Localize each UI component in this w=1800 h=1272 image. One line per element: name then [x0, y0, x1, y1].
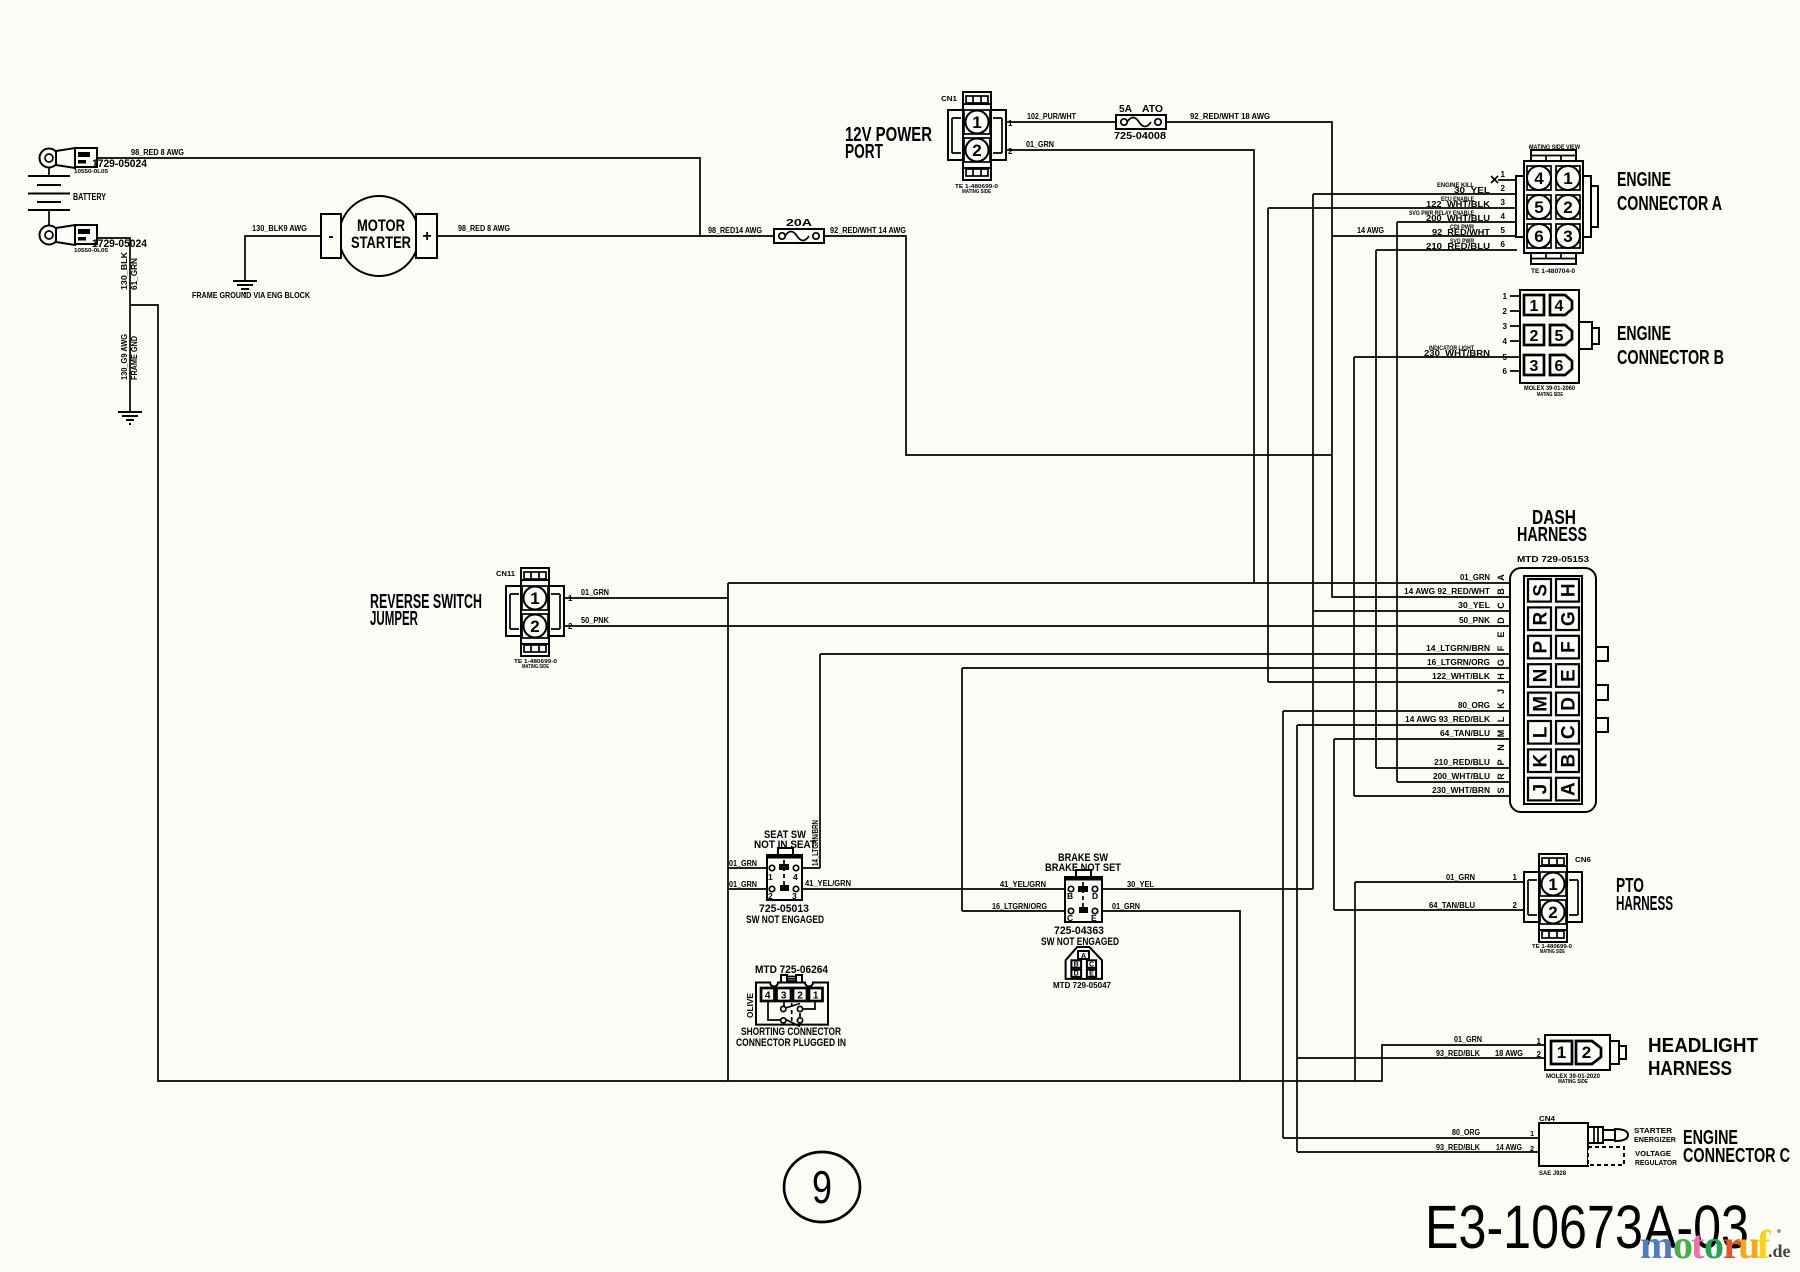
- svg-text:L: L: [1531, 726, 1552, 738]
- svg-text:PORT: PORT: [845, 141, 883, 163]
- svg-text:MTD 725-06264: MTD 725-06264: [755, 964, 829, 976]
- svg-text:3: 3: [1563, 227, 1572, 246]
- svg-text:E: E: [1496, 631, 1506, 637]
- svg-text:HARNESS: HARNESS: [1648, 1058, 1732, 1080]
- svg-text:CN6: CN6: [1575, 857, 1591, 864]
- svg-text:4: 4: [1503, 337, 1508, 346]
- svg-text:4: 4: [1501, 212, 1506, 221]
- svg-text:J: J: [1496, 689, 1506, 694]
- svg-text:41_YEL/GRN: 41_YEL/GRN: [805, 879, 851, 888]
- svg-text:C: C: [1067, 913, 1073, 923]
- svg-text:2: 2: [1530, 1146, 1534, 1153]
- svg-text:80_ORG: 80_ORG: [1452, 1128, 1480, 1137]
- svg-text:E: E: [1091, 913, 1097, 923]
- svg-text:2: 2: [1503, 307, 1508, 316]
- svg-text:D: D: [1092, 891, 1098, 901]
- svg-text:1: 1: [1501, 170, 1506, 179]
- svg-text:200_WHT/BLU: 200_WHT/BLU: [1426, 213, 1490, 223]
- svg-text:M: M: [1531, 696, 1552, 712]
- svg-text:18 AWG: 18 AWG: [1495, 1049, 1523, 1058]
- svg-text:MATING SIDE: MATING SIDE: [962, 189, 992, 195]
- svg-text:102_PUR/WHT: 102_PUR/WHT: [1027, 112, 1076, 121]
- svg-text:210_RED/BLU: 210_RED/BLU: [1434, 758, 1490, 767]
- svg-text:122_WHT/BLK: 122_WHT/BLK: [1426, 199, 1491, 209]
- svg-text:01_GRN: 01_GRN: [581, 588, 609, 597]
- svg-text:9: 9: [812, 1161, 832, 1213]
- svg-text:2: 2: [1582, 1043, 1591, 1062]
- svg-text:16_LTGRN/ORG: 16_LTGRN/ORG: [1427, 658, 1490, 667]
- svg-text:10550-0L05: 10550-0L05: [74, 248, 108, 254]
- svg-text:2: 2: [1501, 184, 1506, 193]
- svg-text:BATTERY: BATTERY: [73, 192, 106, 203]
- svg-text:ENERGIZER: ENERGIZER: [1634, 1137, 1676, 1144]
- svg-text:5: 5: [1555, 328, 1564, 345]
- svg-text:4: 4: [765, 990, 771, 1001]
- svg-text:98_RED14 AWG: 98_RED14 AWG: [708, 226, 762, 235]
- svg-text:+: +: [422, 228, 431, 245]
- svg-text:2: 2: [1563, 198, 1572, 217]
- svg-text:SAE J928: SAE J928: [1539, 1171, 1567, 1177]
- svg-text:4: 4: [793, 872, 798, 882]
- svg-text:SW NOT ENGAGED: SW NOT ENGAGED: [746, 914, 824, 926]
- svg-text:3: 3: [1530, 358, 1539, 375]
- svg-text:3: 3: [792, 891, 797, 901]
- svg-text:ENGINE: ENGINE: [1617, 323, 1671, 345]
- svg-text:R: R: [1531, 612, 1552, 626]
- svg-text:61_GRN: 61_GRN: [130, 258, 139, 290]
- svg-text:2: 2: [1513, 901, 1518, 910]
- svg-text:01_GRN: 01_GRN: [1112, 902, 1140, 911]
- svg-text:92_RED/WHT 14 AWG: 92_RED/WHT 14 AWG: [830, 226, 906, 235]
- svg-text:6: 6: [1503, 367, 1508, 376]
- svg-text:30_YEL: 30_YEL: [1127, 880, 1154, 889]
- svg-text:G: G: [1496, 659, 1506, 666]
- svg-text:4: 4: [1534, 169, 1544, 188]
- svg-text:MATING SIDE: MATING SIDE: [1540, 949, 1566, 955]
- svg-text:6: 6: [1555, 358, 1564, 375]
- svg-text:CN11: CN11: [496, 571, 515, 578]
- svg-text:.de: .de: [1768, 1241, 1791, 1261]
- svg-text:5A: 5A: [1119, 104, 1132, 115]
- svg-text:B: B: [1559, 754, 1580, 768]
- svg-text:1: 1: [1513, 873, 1518, 882]
- svg-text:41_YEL/GRN: 41_YEL/GRN: [1000, 880, 1046, 889]
- svg-text:MATING SIDE: MATING SIDE: [522, 664, 550, 670]
- svg-text:1: 1: [1530, 1131, 1534, 1138]
- svg-text:200_WHT/BLU: 200_WHT/BLU: [1433, 772, 1490, 781]
- svg-text:B: B: [1067, 891, 1073, 901]
- svg-text:G: G: [1559, 611, 1580, 626]
- svg-text:1: 1: [813, 990, 819, 1001]
- svg-text:130_G9 AWG: 130_G9 AWG: [120, 334, 129, 380]
- svg-text:FRAME GROUND VIA ENG BLOCK: FRAME GROUND VIA ENG BLOCK: [192, 290, 311, 300]
- svg-text:130_BLK: 130_BLK: [120, 252, 129, 290]
- svg-text:2: 2: [1530, 328, 1539, 345]
- svg-text:ATO: ATO: [1142, 104, 1163, 115]
- svg-text:5: 5: [1534, 198, 1543, 217]
- svg-text:2: 2: [797, 990, 803, 1001]
- svg-text:A: A: [1081, 953, 1086, 960]
- svg-text:01_GRN: 01_GRN: [1460, 573, 1490, 582]
- svg-text:1: 1: [1530, 298, 1539, 315]
- svg-text:K: K: [1531, 754, 1552, 768]
- svg-text:A: A: [1559, 782, 1580, 796]
- svg-text:t: t: [1691, 1222, 1705, 1267]
- svg-text:P: P: [1531, 640, 1552, 653]
- svg-text:ENGINE: ENGINE: [1617, 169, 1671, 191]
- svg-text:92_RED/WHT 18 AWG: 92_RED/WHT 18 AWG: [1190, 112, 1270, 121]
- svg-text:P: P: [1496, 759, 1506, 765]
- svg-text:J: J: [1531, 784, 1552, 795]
- svg-text:122_WHT/BLK: 122_WHT/BLK: [1432, 672, 1490, 681]
- svg-text:R: R: [1496, 773, 1506, 780]
- svg-text:16_LTGRN/ORG: 16_LTGRN/ORG: [992, 902, 1047, 911]
- svg-text:6: 6: [1501, 240, 1506, 249]
- svg-text:2: 2: [1537, 1050, 1542, 1059]
- svg-text:14_LTGRN/BRN: 14_LTGRN/BRN: [1426, 644, 1490, 653]
- svg-text:o: o: [1673, 1222, 1693, 1267]
- svg-text:C: C: [1559, 725, 1580, 739]
- svg-text:92_RED/WHT: 92_RED/WHT: [1432, 227, 1491, 237]
- svg-text:E: E: [1559, 669, 1580, 682]
- svg-text:HEADLIGHT: HEADLIGHT: [1648, 1035, 1758, 1057]
- svg-text:50_PNK: 50_PNK: [581, 616, 609, 625]
- svg-text:M: M: [1496, 730, 1506, 738]
- svg-text:D: D: [1496, 617, 1506, 624]
- svg-text:CONNECTOR PLUGGED IN: CONNECTOR PLUGGED IN: [736, 1037, 846, 1049]
- svg-text:130_BLK9 AWG: 130_BLK9 AWG: [252, 224, 307, 233]
- svg-text:01_GRN: 01_GRN: [729, 880, 757, 889]
- svg-text:MTD 729-05153: MTD 729-05153: [1517, 555, 1590, 564]
- svg-text:14_LTGRN/BRN: 14_LTGRN/BRN: [811, 820, 820, 866]
- svg-text:50_PNK: 50_PNK: [1459, 616, 1490, 625]
- svg-text:1: 1: [1563, 169, 1572, 188]
- svg-text:STARTER: STARTER: [351, 233, 411, 252]
- svg-text:E: E: [1089, 971, 1094, 978]
- svg-text:2: 2: [1008, 147, 1013, 156]
- svg-text:64_TAN/BLU: 64_TAN/BLU: [1440, 729, 1490, 738]
- svg-text:HARNESS: HARNESS: [1616, 893, 1673, 915]
- svg-text:30_YEL: 30_YEL: [1454, 185, 1490, 195]
- svg-text:CONNECTOR B: CONNECTOR B: [1617, 347, 1724, 369]
- svg-text:MATING SIDE VIEW: MATING SIDE VIEW: [1529, 145, 1580, 151]
- svg-text:6: 6: [1534, 227, 1543, 246]
- svg-text:B: B: [1074, 962, 1079, 969]
- svg-text:64_TAN/BLU: 64_TAN/BLU: [1429, 901, 1475, 910]
- svg-text:14 AWG: 14 AWG: [1496, 1143, 1522, 1152]
- svg-text:5: 5: [1501, 226, 1506, 235]
- svg-text:230_WHT/BRN: 230_WHT/BRN: [1424, 348, 1490, 358]
- svg-text:93_RED/BLK: 93_RED/BLK: [1436, 1143, 1480, 1152]
- svg-text:2: 2: [768, 891, 773, 901]
- svg-text:3: 3: [1503, 322, 1508, 331]
- svg-text:20A: 20A: [786, 218, 812, 229]
- svg-text:CONNECTOR A: CONNECTOR A: [1617, 193, 1722, 215]
- svg-text:VOLTAGE: VOLTAGE: [1635, 1151, 1671, 1158]
- svg-text:CN1: CN1: [941, 96, 957, 103]
- svg-text:C: C: [1089, 962, 1094, 969]
- svg-text:14 AWG: 14 AWG: [1357, 226, 1384, 235]
- svg-text:MTD 729-05047: MTD 729-05047: [1053, 981, 1112, 990]
- svg-text:D: D: [1074, 971, 1079, 978]
- svg-text:CN4: CN4: [1539, 1116, 1555, 1123]
- svg-text:MATING SIDE: MATING SIDE: [1537, 392, 1564, 398]
- svg-text:H: H: [1496, 673, 1506, 680]
- svg-text:10550-0L05: 10550-0L05: [74, 169, 108, 175]
- svg-text:98_RED 8 AWG: 98_RED 8 AWG: [458, 224, 510, 233]
- svg-text:STARTER: STARTER: [1634, 1128, 1672, 1135]
- svg-text:H: H: [1559, 583, 1580, 597]
- svg-text:725-04008: 725-04008: [1114, 131, 1166, 142]
- svg-text:1: 1: [1008, 119, 1013, 128]
- svg-text:01_GRN: 01_GRN: [1026, 140, 1054, 149]
- svg-text:A: A: [1496, 574, 1506, 581]
- svg-text:K: K: [1496, 702, 1506, 709]
- svg-text:S: S: [1531, 584, 1552, 597]
- svg-text:REGULATOR: REGULATOR: [1635, 1160, 1677, 1167]
- svg-text:14 AWG 92_RED/WHT: 14 AWG 92_RED/WHT: [1404, 587, 1490, 596]
- svg-text:14 AWG 93_RED/BLK: 14 AWG 93_RED/BLK: [1405, 715, 1490, 724]
- svg-text:D: D: [1559, 697, 1580, 711]
- svg-text:F: F: [1496, 645, 1506, 651]
- svg-text:1: 1: [1557, 1043, 1566, 1062]
- svg-text:01_GRN: 01_GRN: [729, 859, 757, 868]
- svg-text:JUMPER: JUMPER: [370, 608, 418, 630]
- svg-text:C: C: [1496, 602, 1506, 609]
- svg-text:F: F: [1559, 641, 1580, 653]
- svg-text:2: 2: [568, 622, 573, 631]
- svg-text:MATING SIDE: MATING SIDE: [1558, 1079, 1589, 1085]
- svg-text:93_RED/BLK: 93_RED/BLK: [1436, 1049, 1480, 1058]
- svg-text:01_GRN: 01_GRN: [1446, 873, 1475, 882]
- svg-text:o: o: [1704, 1222, 1724, 1267]
- svg-text:1: 1: [568, 594, 573, 603]
- svg-text:1: 1: [768, 872, 773, 882]
- svg-text:98_RED 8 AWG: 98_RED 8 AWG: [131, 148, 184, 157]
- svg-text:1: 1: [1503, 292, 1508, 301]
- svg-text:1: 1: [1537, 1037, 1542, 1046]
- svg-text:01_GRN: 01_GRN: [1454, 1035, 1482, 1044]
- svg-text:N: N: [1531, 669, 1552, 683]
- svg-text:B: B: [1496, 588, 1506, 595]
- svg-text:5: 5: [1503, 353, 1508, 362]
- svg-text:N: N: [1496, 744, 1506, 751]
- svg-text:CONNECTOR C: CONNECTOR C: [1683, 1145, 1790, 1167]
- svg-text:3: 3: [1501, 198, 1506, 207]
- svg-text:4: 4: [1555, 298, 1564, 315]
- svg-text:30_YEL: 30_YEL: [1458, 601, 1490, 610]
- svg-text:HARNESS: HARNESS: [1517, 524, 1587, 546]
- svg-text:210_RED/BLU: 210_RED/BLU: [1426, 241, 1490, 251]
- svg-text:230_WHT/BRN: 230_WHT/BRN: [1432, 786, 1490, 795]
- svg-text:TE 1-480704-0: TE 1-480704-0: [1531, 269, 1576, 275]
- svg-text:80_ORG: 80_ORG: [1458, 701, 1490, 710]
- svg-text:m: m: [1640, 1222, 1673, 1267]
- svg-text:-: -: [328, 228, 333, 245]
- svg-text:OLIVE: OLIVE: [746, 992, 755, 1018]
- svg-text:L: L: [1496, 716, 1506, 722]
- svg-text:3: 3: [781, 990, 787, 1001]
- svg-text:FRAME GND: FRAME GND: [130, 336, 139, 380]
- svg-text:S: S: [1496, 787, 1506, 793]
